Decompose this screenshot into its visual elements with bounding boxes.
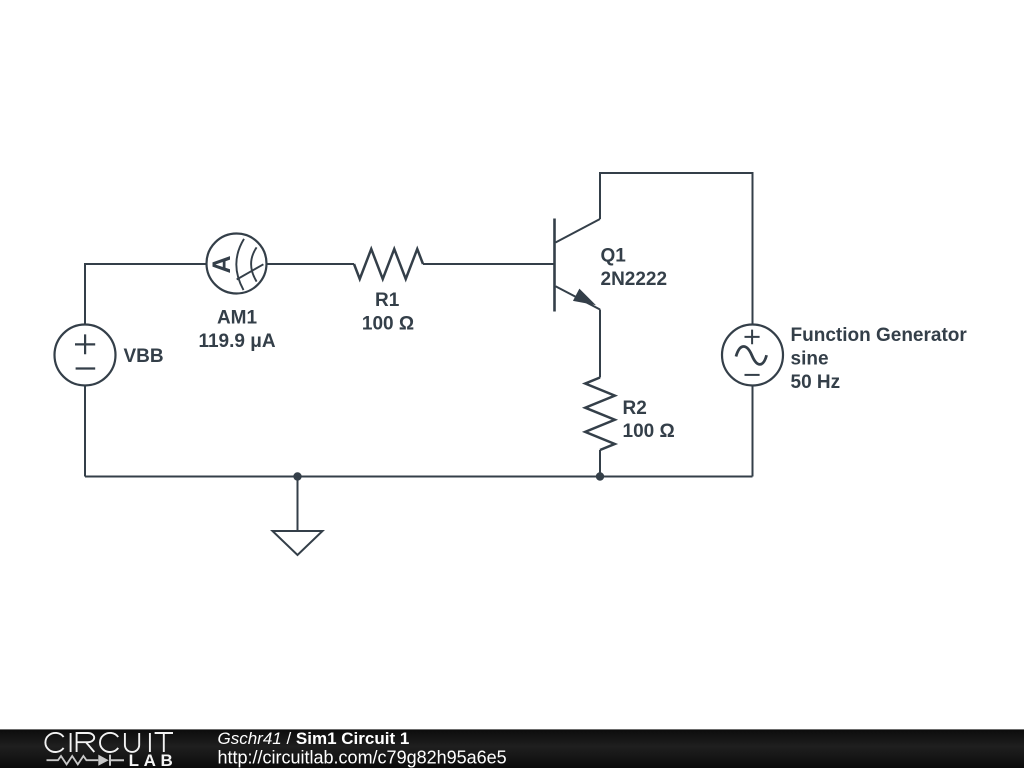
svg-text:R1: R1 bbox=[375, 290, 400, 311]
svg-text:Q1: Q1 bbox=[601, 246, 627, 267]
svg-text:50 Hz: 50 Hz bbox=[791, 372, 841, 393]
wire function generator bottom lead bbox=[752, 386, 754, 477]
ammeter AM1 bbox=[207, 234, 267, 294]
svg-text:LAB: LAB bbox=[129, 751, 178, 768]
svg-text:AM1: AM1 bbox=[217, 308, 258, 329]
svg-text:http://circuitlab.com/c79g82h9: http://circuitlab.com/c79g82h95a6e5 bbox=[218, 748, 507, 768]
resistor R1 bbox=[354, 249, 423, 279]
resistor R2 bbox=[585, 378, 615, 451]
svg-text:Gschr41 / Sim1 Circuit 1: Gschr41 / Sim1 Circuit 1 bbox=[218, 729, 410, 748]
emitter arrow Q1 bbox=[574, 289, 595, 304]
wire ground stub bbox=[297, 477, 299, 532]
svg-text:A: A bbox=[208, 255, 236, 273]
wire emitter to R2 bbox=[599, 310, 601, 378]
junction dot ground bbox=[293, 472, 301, 480]
svg-text:100 Ω: 100 Ω bbox=[623, 421, 675, 442]
wire ammeter to R1 bbox=[267, 263, 355, 265]
svg-text:Function Generator: Function Generator bbox=[791, 325, 968, 346]
CircuitLab logo diode bbox=[98, 755, 108, 766]
svg-text:VBB: VBB bbox=[124, 346, 164, 367]
svg-text:2N2222: 2N2222 bbox=[601, 269, 668, 290]
svg-text:sine: sine bbox=[791, 349, 829, 370]
wire R2 to bottom rail bbox=[599, 450, 601, 477]
wire VBB bottom lead bbox=[84, 386, 86, 477]
CircuitLab logo text CIRCUIT bbox=[45, 733, 173, 752]
function generator V1 bbox=[722, 325, 783, 386]
ground symbol bbox=[273, 531, 323, 555]
wire collector net top bbox=[600, 173, 753, 325]
transistor Q1 bbox=[555, 219, 601, 312]
voltage source VBB bbox=[55, 325, 116, 386]
wire VBB top to ammeter bbox=[85, 264, 207, 325]
CircuitLab logo resistor bbox=[47, 756, 99, 764]
svg-text:100 Ω: 100 Ω bbox=[362, 314, 414, 335]
svg-text:119.9 μA: 119.9 μA bbox=[198, 331, 275, 352]
wire bottom rail bbox=[85, 476, 753, 478]
svg-text:R2: R2 bbox=[623, 398, 647, 419]
wire R1 to Q1 base bbox=[423, 263, 554, 265]
junction dot R2 bottom bbox=[596, 472, 604, 480]
footer bar bbox=[0, 729, 1024, 768]
